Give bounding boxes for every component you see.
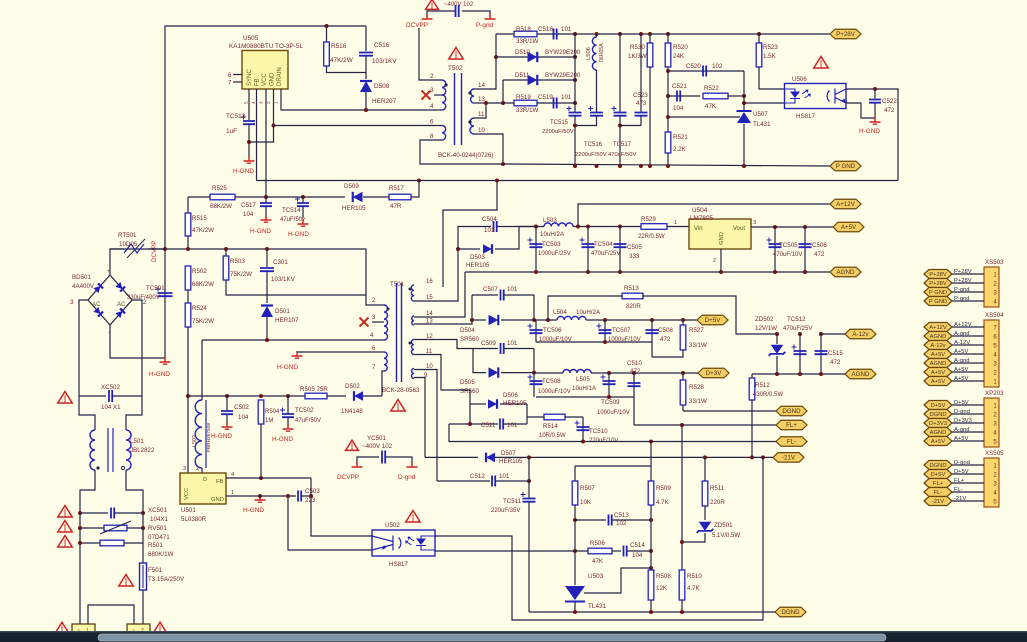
svg-text:FL-: FL- bbox=[934, 490, 943, 496]
svg-text:10uH/2A: 10uH/2A bbox=[540, 231, 565, 238]
svg-text:R513: R513 bbox=[624, 285, 639, 292]
svg-text:AC: AC bbox=[117, 302, 126, 308]
capacitor C518 101 bbox=[554, 29, 557, 40]
resistor R506 47K bbox=[588, 548, 612, 554]
svg-text:AGND: AGND bbox=[930, 334, 947, 340]
wire: TC503 top from snubber node bbox=[519, 226, 536, 228]
resistor R523 1.5K bbox=[757, 32, 761, 36]
svg-text:68K/2W: 68K/2W bbox=[192, 281, 214, 288]
svg-text:R517: R517 bbox=[389, 185, 404, 192]
wire: R514 to TC510 bbox=[565, 416, 583, 418]
svg-text:R508: R508 bbox=[656, 573, 671, 580]
svg-text:820R: 820R bbox=[626, 303, 641, 310]
svg-text:R522: R522 bbox=[704, 85, 719, 92]
junction TC517/C523 bottom tie bbox=[618, 124, 622, 128]
wire: U502 collector to -21V return rail bbox=[435, 457, 763, 620]
wire: D+5V cap return rail bbox=[536, 342, 652, 357]
resistor R521 2.2K bbox=[665, 132, 671, 153]
svg-text:4.7K: 4.7K bbox=[656, 499, 670, 506]
wire: U505 GND pin tie to SYNC column bbox=[249, 89, 274, 142]
resistor R505 75R bbox=[305, 393, 327, 399]
svg-text:10uH/2A: 10uH/2A bbox=[576, 309, 601, 316]
wire: U506 emitter to C522/H-GND bbox=[846, 103, 875, 118]
op-amp U505 KA1M0880BTU TO-3P-5L box bbox=[242, 51, 288, 90]
svg-text:R510: R510 bbox=[687, 573, 702, 580]
wire: C516 to D508 bbox=[365, 56, 367, 79]
svg-text:TL431: TL431 bbox=[753, 121, 771, 128]
wire: U504 Vout to A+5V bbox=[751, 226, 833, 228]
T502 polarity dots bbox=[444, 83, 447, 86]
resistor R502 68K/2W bbox=[185, 266, 191, 290]
svg-text:HER107: HER107 bbox=[275, 317, 299, 324]
svg-text:A-12v: A-12v bbox=[852, 331, 869, 338]
svg-text:~400V 102: ~400V 102 bbox=[444, 2, 474, 8]
wire: feedback return to U502 transistor emitter bbox=[288, 496, 372, 550]
svg-text:104: 104 bbox=[632, 552, 643, 559]
svg-text:C509: C509 bbox=[481, 340, 496, 347]
capacitor ~400V 102 (top) bbox=[456, 5, 459, 17]
wire: terminal jumper bbox=[88, 605, 134, 624]
wire: L503 to U504 Vin bbox=[573, 226, 689, 228]
svg-text:TC507: TC507 bbox=[612, 327, 631, 334]
wire: P+28V bus bbox=[496, 33, 830, 35]
resistor R510 4.7K bbox=[681, 425, 683, 570]
capacitor TC510 220uF/10V bbox=[582, 417, 584, 442]
connector AC terminal 2 bbox=[127, 624, 150, 635]
capacitor TC512 470uF/25V bbox=[798, 332, 802, 336]
svg-text:AGND: AGND bbox=[930, 361, 947, 367]
svg-text:Vout: Vout bbox=[733, 226, 745, 232]
svg-text:R506: R506 bbox=[590, 540, 605, 547]
svg-text:R529: R529 bbox=[641, 216, 656, 223]
svg-text:U502: U502 bbox=[385, 522, 400, 529]
svg-text:FB: FB bbox=[255, 78, 261, 86]
svg-text:A-12V: A-12V bbox=[954, 340, 970, 346]
capacitor XC502 104 X1 bbox=[79, 395, 106, 397]
wire: P-GND rail bbox=[503, 164, 830, 166]
svg-text:ZD501: ZD501 bbox=[714, 522, 733, 529]
svg-text:A+5V: A+5V bbox=[954, 349, 968, 355]
net arrow DGND (bottom) bbox=[775, 607, 806, 617]
svg-text:C516: C516 bbox=[374, 42, 390, 49]
svg-text:A-gnd: A-gnd bbox=[954, 427, 969, 433]
net arrow AGND bbox=[830, 267, 861, 277]
resistor R504 1M bbox=[259, 394, 263, 398]
junction SYNC/GND tie bbox=[247, 140, 251, 144]
svg-text:U506: U506 bbox=[792, 76, 807, 83]
warning triangle (fuse) bbox=[119, 575, 133, 586]
svg-text:12V/1W: 12V/1W bbox=[755, 325, 777, 332]
net arrow A+12V (XS504 pin 7) bbox=[924, 323, 952, 332]
wire: T502 pin13 row bbox=[474, 102, 503, 104]
net arrow D+5V bbox=[697, 315, 728, 325]
wire: T502 pin14 to rectifier column bbox=[474, 34, 496, 89]
net arrow A+5V (XS504 pin 1) bbox=[924, 377, 952, 386]
resistor R530 1K/3W bbox=[648, 32, 652, 36]
wire: TC513 to H-GND bbox=[248, 124, 250, 158]
wire: L502 to U501 D pin bbox=[201, 468, 203, 473]
svg-text:10K: 10K bbox=[580, 499, 592, 506]
net arrow P+28V (XS503 pin 2) bbox=[924, 279, 952, 288]
svg-text:+: + bbox=[107, 269, 111, 275]
transformer T501 core bbox=[396, 283, 398, 382]
net arrow A+5V (XS504 pin 4) bbox=[924, 350, 952, 359]
svg-text:TC515: TC515 bbox=[550, 120, 569, 126]
net arrow P GND bbox=[830, 161, 861, 171]
svg-text:D: D bbox=[203, 477, 207, 483]
svg-text:AGND: AGND bbox=[930, 430, 947, 436]
net arrow DGND (left) bbox=[776, 406, 807, 416]
transformer T501 primary winding lower (pins 6-7) bbox=[384, 352, 387, 371]
net flag P-gnd (top) bbox=[485, 14, 496, 19]
U502 phototransistor symbol bbox=[372, 536, 401, 551]
svg-text:JBL2822: JBL2822 bbox=[130, 447, 155, 454]
svg-text:U501: U501 bbox=[181, 507, 196, 514]
wire: FB column to U502 bbox=[311, 478, 372, 536]
svg-text:220R: 220R bbox=[710, 499, 725, 506]
net arrow D+5V (XP203 pin 1) bbox=[924, 401, 952, 410]
net arrow A+5V bbox=[833, 222, 864, 232]
svg-text:L505: L505 bbox=[576, 376, 590, 383]
resistor R507 10K bbox=[574, 466, 576, 481]
svg-text:3: 3 bbox=[430, 87, 434, 94]
wire: D501 to T501 pin4 row bbox=[266, 317, 268, 340]
wire: U501 supply row bbox=[188, 395, 305, 397]
ground H-GND (TC514) bbox=[298, 219, 309, 226]
svg-text:24K: 24K bbox=[673, 53, 685, 60]
net arrow -21V (left) bbox=[773, 453, 804, 463]
wire: aux bus drop to T501 pin16 bbox=[443, 181, 497, 288]
svg-text:1uF: 1uF bbox=[226, 128, 237, 135]
wire: feedback bus (T501 pin16 aux) bbox=[257, 180, 899, 182]
ground H-GND (TC502) bbox=[283, 424, 294, 431]
svg-text:R514: R514 bbox=[543, 423, 558, 430]
svg-text:L506: L506 bbox=[586, 47, 592, 60]
capacitor TC514 47uF/50v bbox=[302, 197, 304, 203]
svg-text:D+5V: D+5V bbox=[954, 469, 969, 475]
junction DRAIN row / D508 bbox=[364, 108, 368, 112]
svg-text:C506: C506 bbox=[812, 242, 827, 249]
warning triangles (terminals) bbox=[56, 622, 69, 632]
inductor L505 10uH/1A bbox=[563, 370, 591, 373]
svg-text:75K/2W: 75K/2W bbox=[192, 318, 214, 325]
wire: R517 to aux bus bbox=[411, 181, 419, 198]
svg-text:D503: D503 bbox=[470, 254, 485, 261]
svg-text:C518: C518 bbox=[538, 26, 553, 33]
transformer T502 pin3 stub with X bbox=[434, 94, 442, 96]
svg-text:104: 104 bbox=[243, 211, 254, 218]
capacitor TC504 470uF/25V bbox=[586, 225, 590, 229]
svg-text:~400V 102: ~400V 102 bbox=[362, 443, 393, 450]
svg-text:10R/0.5W: 10R/0.5W bbox=[539, 433, 566, 439]
svg-text:FL-: FL- bbox=[954, 487, 963, 493]
svg-text:47K: 47K bbox=[705, 103, 717, 110]
svg-text:VCC: VCC bbox=[262, 73, 268, 86]
svg-text:GND: GND bbox=[719, 232, 725, 245]
diode D501 HER107 (cathode up) bbox=[261, 306, 273, 317]
resistor R525 68K/2W bbox=[210, 194, 235, 200]
scrollbar thumb bbox=[98, 634, 886, 641]
U505 pin 6 stub bbox=[233, 74, 242, 76]
svg-text:33/1W: 33/1W bbox=[689, 342, 707, 349]
svg-text:HS817: HS817 bbox=[796, 113, 815, 120]
net flag DCVPP (YC501) bbox=[352, 462, 363, 467]
svg-text:3: 3 bbox=[183, 466, 186, 472]
svg-text:DCVPP: DCVPP bbox=[406, 22, 428, 29]
svg-text:TC504: TC504 bbox=[594, 241, 613, 248]
svg-text:A+5V: A+5V bbox=[931, 352, 945, 358]
svg-text:472: 472 bbox=[830, 359, 841, 366]
warning triangle (U506) bbox=[814, 57, 828, 68]
wire: T501 pin15 to D503 snubber bbox=[414, 249, 458, 301]
svg-text:D+5V: D+5V bbox=[705, 317, 722, 324]
svg-text:102: 102 bbox=[616, 520, 627, 527]
diode D508 HER207 (cathode up) bbox=[360, 81, 372, 92]
wire: R516 bottom jog to C516/D508 column bbox=[327, 66, 367, 73]
svg-text:R521: R521 bbox=[673, 134, 688, 141]
svg-text:A+5V: A+5V bbox=[931, 439, 945, 445]
wire: R505 to D502 bbox=[327, 395, 346, 397]
IC U501 5L0380R box bbox=[180, 473, 226, 504]
net arrow AGND (XS504 pin 3) bbox=[924, 359, 952, 368]
diode D506 HER105 bbox=[470, 403, 486, 405]
svg-text:C301: C301 bbox=[273, 259, 288, 266]
svg-text:R530: R530 bbox=[630, 44, 645, 51]
svg-text:T502: T502 bbox=[448, 65, 463, 72]
resistor R524 75K/2W bbox=[187, 290, 189, 303]
svg-text:101: 101 bbox=[484, 227, 495, 234]
svg-text:D510: D510 bbox=[515, 49, 530, 56]
capacitor TC502 47uF/50V bbox=[286, 394, 290, 398]
net arrow P GND (XS503 pin 3) bbox=[924, 288, 952, 297]
capacitor TC506 1000uF/10V bbox=[535, 320, 537, 342]
svg-text:TC517: TC517 bbox=[613, 142, 632, 148]
svg-text:H-GND: H-GND bbox=[859, 128, 880, 135]
svg-text:101: 101 bbox=[561, 26, 572, 33]
svg-text:XP203: XP203 bbox=[985, 390, 1004, 397]
resistor R509 4.7K bbox=[650, 466, 652, 481]
svg-text:H-GND: H-GND bbox=[211, 433, 232, 440]
svg-text:C508: C508 bbox=[658, 327, 673, 334]
resistor R522 47K bbox=[703, 93, 728, 99]
wire: DGND bottom rail bbox=[529, 611, 740, 613]
capacitor C512 101 bbox=[437, 480, 490, 482]
svg-text:HS817: HS817 bbox=[389, 561, 408, 568]
capacitor C519 101 bbox=[554, 98, 557, 109]
svg-text:L504: L504 bbox=[553, 309, 567, 316]
svg-text:470uF/50V: 470uF/50V bbox=[608, 152, 636, 158]
svg-text:XC502: XC502 bbox=[101, 384, 120, 391]
svg-text:FB: FB bbox=[216, 479, 224, 485]
bridge rectifier BD501 4A400V bbox=[88, 275, 132, 325]
resistor R515 47K/2W bbox=[185, 213, 191, 236]
warning triangle (top cap) bbox=[426, 0, 439, 9]
svg-text:TC511: TC511 bbox=[503, 498, 522, 505]
svg-text:3: 3 bbox=[753, 220, 756, 226]
svg-text:1000uF/10V: 1000uF/10V bbox=[538, 389, 571, 395]
svg-text:3: 3 bbox=[70, 299, 74, 306]
svg-text:DGND: DGND bbox=[782, 408, 801, 415]
junction GND pin / T502 pin6 row bbox=[272, 124, 276, 128]
svg-text:C521: C521 bbox=[672, 83, 687, 90]
svg-text:220uF/35V: 220uF/35V bbox=[491, 508, 520, 514]
svg-text:P+28V: P+28V bbox=[836, 31, 856, 38]
ground H-GND (C522) bbox=[870, 117, 881, 124]
svg-text:R511: R511 bbox=[710, 485, 725, 492]
junction U507/U506 LED return bbox=[742, 101, 746, 105]
svg-text:C503: C503 bbox=[305, 488, 320, 495]
svg-text:R502: R502 bbox=[192, 268, 207, 275]
svg-text:7: 7 bbox=[228, 80, 232, 87]
resistor R516 47K/2W bbox=[326, 26, 328, 42]
junction DC bus x165 bbox=[163, 247, 167, 251]
junction DC bus R515/R502 bbox=[186, 247, 190, 251]
diode D502 1N4148 (cathode left) bbox=[354, 391, 363, 401]
svg-text:103/1KV: 103/1KV bbox=[271, 276, 296, 283]
svg-text:TC513: TC513 bbox=[226, 113, 246, 120]
svg-text:472: 472 bbox=[630, 368, 641, 375]
svg-text:D508: D508 bbox=[374, 83, 390, 90]
T501 polarity dots bbox=[387, 308, 390, 311]
ground H-GND (C502) bbox=[222, 422, 233, 429]
capacitor C517 104 bbox=[265, 197, 267, 203]
wire: fuse to terminal 2 bbox=[142, 590, 144, 624]
wire: X-cap to L501 bbox=[79, 396, 95, 430]
junction C521 row bbox=[666, 94, 670, 98]
svg-text:L502: L502 bbox=[192, 435, 198, 447]
svg-text:R516: R516 bbox=[331, 43, 347, 50]
svg-text:D502: D502 bbox=[345, 383, 360, 390]
common-mode choke L501 JBL2822 bbox=[90, 430, 95, 470]
wire: T502 pin8 to P-GND rail bbox=[420, 140, 503, 164]
wire: FL- rail bbox=[449, 424, 776, 442]
svg-text:101: 101 bbox=[507, 286, 518, 293]
svg-text:C513: C513 bbox=[614, 512, 629, 519]
svg-text:C505: C505 bbox=[627, 244, 642, 251]
wire: FL+ rail bbox=[634, 424, 776, 426]
net arrow -21V (XS505 pin 5) bbox=[924, 497, 952, 506]
svg-text:U505: U505 bbox=[243, 35, 259, 42]
svg-text:TC512: TC512 bbox=[787, 316, 806, 323]
wire: GND pin to T502 pin6 row bbox=[274, 125, 443, 127]
svg-text:SYNC: SYNC bbox=[247, 69, 253, 86]
capacitor C516 103/1KV bbox=[365, 26, 367, 51]
wire: D+3V rail through L505 bbox=[533, 349, 535, 398]
resistor R518 33R/1W bbox=[514, 31, 537, 37]
svg-text:R528: R528 bbox=[689, 384, 704, 391]
regulator U504 LM7805 bbox=[689, 219, 751, 249]
diode D504 SR560 bbox=[470, 318, 474, 322]
warning triangle (YC501) bbox=[346, 440, 359, 450]
optocoupler U502 HS817 bbox=[372, 530, 435, 556]
svg-text:4A400V: 4A400V bbox=[72, 283, 95, 290]
svg-text:101: 101 bbox=[507, 340, 518, 347]
svg-text:VCC: VCC bbox=[184, 488, 190, 500]
svg-text:TC505: TC505 bbox=[779, 242, 798, 249]
net arrow D+3V bbox=[698, 368, 729, 378]
wire: HV DC+ bus top-left loop bbox=[165, 26, 366, 358]
svg-text:R515: R515 bbox=[192, 215, 207, 222]
svg-text:103/1KV: 103/1KV bbox=[372, 58, 397, 65]
svg-text:14: 14 bbox=[426, 311, 433, 317]
net arrow D+5V (XS505 pin 2) bbox=[924, 470, 952, 479]
svg-text:5L0380R: 5L0380R bbox=[181, 516, 207, 523]
wire: AGND rail bbox=[465, 271, 830, 273]
capacitor C502 104 bbox=[226, 396, 228, 411]
svg-text:P+28V: P+28V bbox=[954, 269, 972, 275]
transformer T502 warning triangle bbox=[449, 48, 463, 59]
wire: T501 pin6 to H-GND bbox=[297, 351, 384, 353]
svg-text:A+5V: A+5V bbox=[954, 436, 968, 442]
svg-text:D509: D509 bbox=[344, 183, 359, 190]
svg-text:XC501: XC501 bbox=[148, 507, 167, 514]
junction DC bus R503 bbox=[224, 247, 228, 251]
wire: AGND row (zener section) bbox=[752, 373, 845, 375]
svg-text:HER105: HER105 bbox=[342, 205, 366, 212]
capacitor TC511 220uF/35V bbox=[527, 479, 531, 483]
net arrow AGND (XS504 pin 6) bbox=[924, 332, 952, 341]
svg-text:DGND: DGND bbox=[929, 412, 946, 418]
svg-text:FL+: FL+ bbox=[786, 422, 797, 429]
capacitor C509 101 snubber bbox=[473, 348, 498, 350]
svg-text:104X1: 104X1 bbox=[150, 516, 168, 523]
svg-text:DGND: DGND bbox=[929, 463, 946, 469]
resistor R503 75K/2W bbox=[225, 249, 227, 256]
wire: snubber cap ~400V 102 between DCVPP and P-gnd flags bbox=[427, 11, 456, 17]
wire: U502 LED cathode row / R506 row bbox=[573, 549, 577, 553]
svg-text:GND: GND bbox=[211, 497, 224, 503]
wire: left AC column to terminal bbox=[79, 543, 81, 624]
svg-text:AGND: AGND bbox=[852, 371, 870, 378]
warning triangle (T501) bbox=[391, 400, 405, 411]
svg-text:RT501: RT501 bbox=[118, 232, 137, 239]
wire: T501 pin11 to D506 bbox=[414, 355, 470, 405]
capacitor TC508 1000uF/10V bbox=[530, 381, 543, 384]
svg-text:33R/1W: 33R/1W bbox=[516, 38, 539, 45]
svg-text:TL431: TL431 bbox=[588, 603, 607, 610]
svg-text:P-gnd: P-gnd bbox=[476, 22, 493, 29]
junction R520/C520 row bbox=[666, 69, 670, 73]
wire: R513 tap to A-12V bbox=[546, 318, 550, 322]
svg-text:AGND: AGND bbox=[837, 269, 855, 276]
svg-text:C519: C519 bbox=[538, 94, 553, 101]
svg-text:H-GND: H-GND bbox=[288, 231, 309, 238]
svg-text:DCVPP: DCVPP bbox=[337, 474, 359, 481]
svg-text:330uF/400V: 330uF/400V bbox=[127, 295, 160, 301]
svg-text:A+12V: A+12V bbox=[954, 322, 972, 328]
svg-text:2: 2 bbox=[266, 101, 271, 104]
net arrow FL- (XS505 pin 4) bbox=[924, 488, 952, 497]
svg-text:1M: 1M bbox=[265, 418, 273, 424]
svg-text:R503: R503 bbox=[230, 258, 245, 265]
svg-text:75K/2W: 75K/2W bbox=[230, 271, 252, 278]
svg-text:47uF/50V: 47uF/50V bbox=[295, 418, 321, 424]
svg-text:C517: C517 bbox=[241, 202, 256, 209]
wire: R524 column to U501 VCC pin bbox=[187, 396, 189, 473]
capacitor C503 223 bbox=[260, 495, 296, 497]
svg-text:U504: U504 bbox=[692, 207, 708, 214]
svg-text:473: 473 bbox=[636, 100, 647, 107]
wire: T501 pin12 to C509 bbox=[414, 340, 473, 349]
svg-text:06H05A: 06H05A bbox=[599, 43, 605, 62]
U506 LED symbol bbox=[790, 92, 800, 99]
wire: T501 pin13 to rectifier bbox=[414, 295, 472, 324]
svg-text:D506: D506 bbox=[503, 392, 518, 399]
junction R522/U507 column bbox=[742, 94, 746, 98]
svg-text:SR560: SR560 bbox=[460, 336, 479, 343]
svg-text:P GND: P GND bbox=[836, 163, 856, 170]
svg-text:A+12V: A+12V bbox=[929, 325, 947, 331]
